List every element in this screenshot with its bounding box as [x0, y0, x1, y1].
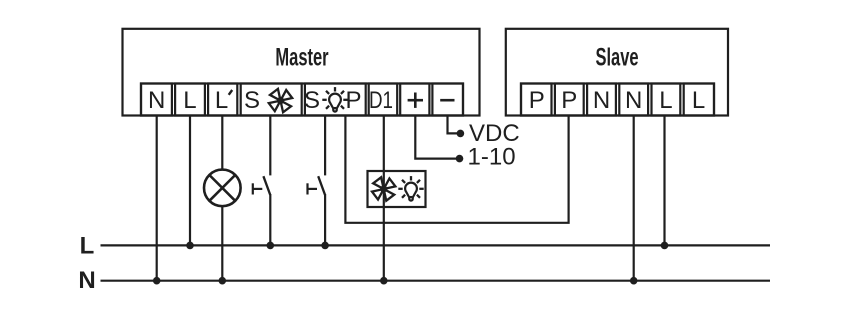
svg-text:P: P [561, 87, 577, 114]
svg-text:N: N [148, 87, 165, 114]
junction: N wire on N rail [153, 277, 161, 285]
wire: D1 segment inside load box [383, 171, 385, 207]
terminal N4 (Slave) [619, 84, 648, 116]
L rail [101, 244, 771, 246]
push-button S1 [253, 176, 270, 195]
wire: Master P to Slave P2 (P bus) [345, 115, 568, 223]
bulb symbol on terminal [322, 87, 347, 112]
svg-text:L: L [183, 87, 196, 114]
terminal L (Master) [175, 84, 205, 116]
fan symbol in load box [372, 177, 395, 200]
push-button S2 [308, 176, 326, 195]
wire: Master S(fan) to switch S1 [269, 115, 271, 176]
svg-text:S: S [304, 87, 320, 114]
wire: Master N to N rail [156, 115, 158, 281]
Master terminal strip outline [141, 84, 463, 116]
svg-text:L: L [80, 233, 95, 260]
wire: Master - to VDC node [448, 115, 461, 134]
terminal S-fan (Master) [241, 84, 302, 116]
svg-text:L: L [659, 87, 672, 114]
svg-text:N: N [625, 87, 642, 114]
wire: switch S2 to L rail [324, 194, 326, 245]
svg-text:Master: Master [275, 44, 328, 71]
junction: S1 wire on L rail [267, 242, 275, 250]
wire: Master S(lamp) to switch S2 [324, 115, 326, 176]
junction: Slave L wire on L rail [661, 242, 669, 250]
svg-text:Slave: Slave [595, 44, 638, 71]
wire: Master L' to lamp [221, 115, 223, 171]
terminal N (Master) [141, 84, 172, 116]
wire: Master L to L rail [189, 115, 191, 246]
wire: Slave N4 to N rail [633, 115, 635, 281]
bulb symbol in load box [398, 176, 423, 201]
wire: switch S1 to L rail [269, 194, 271, 245]
terminal + (Master) [400, 84, 429, 116]
svg-text:1-10: 1-10 [468, 144, 516, 171]
svg-text:P: P [529, 87, 545, 114]
terminal L' (Master) [208, 84, 237, 116]
svg-text:P: P [345, 87, 361, 114]
terminal L5 (Slave) [652, 84, 681, 116]
terminal D1 (Master) [369, 84, 398, 116]
junction: D1 wire on N rail [380, 277, 388, 285]
N rail [101, 280, 771, 282]
node dot 1-10 [456, 155, 464, 163]
junction: S2 wire on L rail [321, 242, 329, 250]
junction: Slave N wire on N rail [630, 277, 638, 285]
terminal P1 (Slave) [521, 84, 552, 116]
terminal L6 (Slave) [684, 84, 714, 116]
fan symbol on terminal [269, 89, 292, 112]
terminal P2 (Slave) [555, 84, 584, 116]
svg-text:D1: D1 [369, 87, 393, 114]
terminal - (Master) [432, 84, 463, 116]
node dot VDC [457, 130, 465, 138]
junction: L wire on L rail [186, 242, 194, 250]
junction: lamp wire on N rail [219, 277, 227, 285]
Master unit box [123, 29, 480, 116]
svg-text:L: L [692, 87, 705, 114]
svg-text:L: L [215, 87, 228, 114]
wire: Master + to 1-10 node [415, 115, 459, 159]
svg-text:S: S [244, 87, 260, 114]
terminal N3 (Slave) [587, 84, 616, 116]
wire: Master D1 through load box to N rail [383, 115, 385, 281]
lamp E1 [204, 170, 241, 207]
terminal S-lamp / P (Master) [305, 84, 366, 116]
fan/light load box [368, 171, 426, 207]
wire: Slave L5 to L rail [663, 115, 665, 246]
Slave terminal strip outline [521, 84, 714, 116]
svg-text:N: N [593, 87, 610, 114]
svg-text:N: N [78, 267, 95, 294]
Slave unit box [506, 29, 728, 116]
wire: lamp to N rail [221, 206, 223, 281]
